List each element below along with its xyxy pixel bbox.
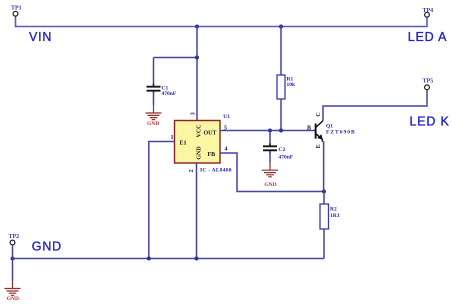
svg-text:LED K: LED K <box>410 114 450 128</box>
ground under C1 <box>146 105 162 120</box>
svg-text:E: E <box>316 144 322 148</box>
test point TP2 <box>10 240 15 245</box>
node junction top rail x197 <box>195 25 199 29</box>
wire TP2 to ground <box>12 259 14 282</box>
transistor Q1 <box>315 124 317 139</box>
svg-text:470nF: 470nF <box>162 91 177 97</box>
svg-text:10k: 10k <box>287 82 297 88</box>
test point TP4 <box>425 12 430 17</box>
svg-text:TP1: TP1 <box>11 5 22 11</box>
test point TP5 <box>425 85 430 90</box>
svg-text:3: 3 <box>191 112 197 115</box>
wire VCC vertical <box>196 27 198 121</box>
wire collector to TP5 <box>323 90 427 121</box>
svg-text:FB: FB <box>208 152 216 158</box>
wire OUT line <box>220 130 316 132</box>
wire bottom GND rail <box>13 258 325 260</box>
test point TP1 <box>13 11 18 16</box>
svg-text:OUT: OUT <box>204 131 217 137</box>
wire pin1 branch <box>149 142 175 259</box>
svg-text:GND: GND <box>147 121 159 127</box>
svg-text:U1: U1 <box>223 114 230 120</box>
svg-text:B: B <box>307 126 311 132</box>
svg-text:TP4: TP4 <box>422 8 433 14</box>
svg-text:2: 2 <box>189 169 195 172</box>
node junction emitter FB R2 <box>322 190 326 194</box>
svg-text:R2: R2 <box>330 207 337 213</box>
svg-text:470nF: 470nF <box>279 155 294 161</box>
svg-text:1: 1 <box>171 135 174 141</box>
wire emitter down <box>323 141 325 191</box>
svg-text:C: C <box>316 112 322 116</box>
svg-text:IC - AL8400: IC - AL8400 <box>200 167 232 173</box>
wire top rail VIN <box>16 17 428 27</box>
node junction top rail x281 <box>279 25 283 29</box>
svg-text:GND: GND <box>197 146 203 160</box>
svg-text:VCC: VCC <box>197 125 203 138</box>
wire FB feedback <box>220 153 324 192</box>
svg-text:FZT690B: FZT690B <box>326 129 356 135</box>
wire pin2 branch <box>196 163 198 259</box>
wire C1 to ground <box>153 92 155 106</box>
svg-text:TP5: TP5 <box>422 78 433 84</box>
node junction C2 top <box>268 129 272 133</box>
node junction R1 bottom <box>279 129 283 133</box>
wire C2 to ground <box>269 151 271 162</box>
resistor R1 <box>280 27 282 76</box>
node junction rail x196.5 <box>195 257 199 261</box>
svg-text:4: 4 <box>225 147 228 153</box>
node junction x197 y57 <box>195 56 199 60</box>
svg-text:GND: GND <box>7 296 19 302</box>
capacitor C2 <box>269 131 271 146</box>
ground under C2 <box>262 162 278 177</box>
IC U1 body <box>175 121 221 164</box>
svg-text:E1: E1 <box>180 141 187 147</box>
svg-text:C2: C2 <box>279 147 286 153</box>
capacitor C1 <box>147 87 161 91</box>
ground under TP2 <box>5 281 21 295</box>
wire C1 branch <box>154 58 198 87</box>
svg-text:1R3: 1R3 <box>330 213 340 219</box>
node junction rail x148.8 <box>147 257 151 261</box>
resistor R2 <box>323 192 325 205</box>
svg-text:GND: GND <box>264 182 276 188</box>
svg-text:LED A: LED A <box>408 30 447 44</box>
svg-text:VIN: VIN <box>29 30 52 44</box>
svg-text:TP2: TP2 <box>8 234 19 240</box>
svg-text:GND: GND <box>32 240 62 254</box>
node junction rail TP2 <box>11 257 15 261</box>
